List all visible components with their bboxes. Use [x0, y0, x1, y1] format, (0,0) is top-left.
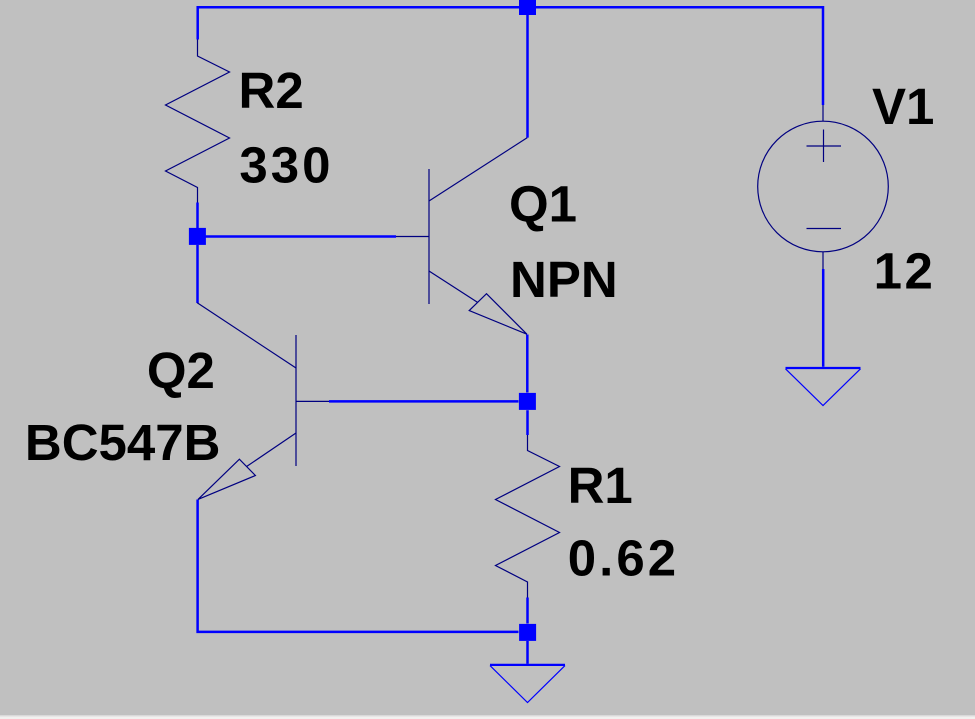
svg-text:R1: R1: [568, 457, 633, 514]
voltage source V1: [758, 105, 889, 269]
node top junction: [519, 0, 536, 15]
svg-text:V1: V1: [872, 78, 934, 135]
ground under node C: [490, 665, 565, 703]
wire node B to R1 top: [526, 410, 529, 435]
transistor Q1: [396, 138, 527, 335]
wire node A to Q1 base: [206, 235, 397, 238]
wire R2 bottom to node A: [196, 203, 199, 229]
svg-text:330: 330: [239, 136, 333, 193]
ground under V1: [786, 368, 861, 406]
svg-text:R2: R2: [239, 62, 304, 119]
wire Q1 emitter to node B: [526, 335, 529, 393]
wire node C to ground: [526, 641, 529, 664]
wire top node down to Q1 collector: [526, 15, 529, 138]
wire Q2 emitter down and right to node C: [198, 500, 519, 632]
wire V1 bottom to ground: [822, 269, 825, 367]
transistor Q2: [197, 303, 329, 500]
svg-text:Q2: Q2: [147, 342, 215, 399]
svg-text:BC547B: BC547B: [25, 414, 221, 471]
node B junction: [519, 393, 536, 410]
resistor R2: [166, 40, 230, 203]
svg-text:0.62: 0.62: [568, 530, 679, 587]
wire top rail from R2 top to V1 top: [198, 7, 823, 105]
node A junction: [189, 228, 206, 245]
resistor R1: [496, 435, 560, 598]
svg-text:Q1: Q1: [509, 176, 577, 233]
svg-text:NPN: NPN: [510, 251, 618, 308]
node C junction: [519, 624, 536, 641]
wire R1 bottom to node C: [526, 598, 529, 624]
svg-text:12: 12: [874, 243, 936, 300]
bottom window strip: [0, 715, 975, 716]
wire node A down to Q2 collector: [196, 245, 199, 303]
wire Q2 base to node B: [329, 400, 519, 403]
